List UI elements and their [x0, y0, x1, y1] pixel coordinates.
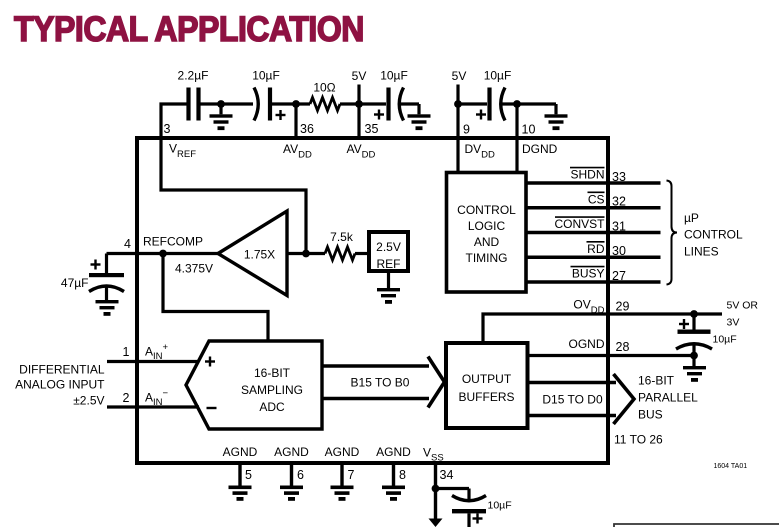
wire C4 to pin10 node [501, 102, 557, 105]
svg-text:B15 TO B0: B15 TO B0 [351, 376, 410, 390]
capacitor C2 10uF (polarized) [252, 69, 285, 121]
ground below 2.2uF node [210, 104, 233, 130]
wire C2 to pin36 node [272, 102, 310, 105]
junction node VSS [432, 485, 440, 493]
svg-text:29: 29 [616, 300, 630, 314]
svg-text:OGND: OGND [569, 337, 605, 351]
ground pin 7 [331, 486, 354, 501]
svg-text:BUFFERS: BUFFERS [458, 390, 514, 404]
svg-text:1604 TA01: 1604 TA01 [714, 463, 748, 470]
svg-text:4: 4 [124, 237, 131, 251]
svg-text:ADC: ADC [259, 400, 285, 414]
svg-text:D15 TO D0: D15 TO D0 [542, 393, 603, 407]
svg-text:LINES: LINES [684, 244, 719, 258]
IC outline U1 (LTC1604) [137, 138, 608, 463]
svg-text:27: 27 [612, 269, 626, 283]
ground pin 6 [280, 486, 303, 501]
wire C3 to ground [399, 102, 419, 105]
svg-text:AGND: AGND [376, 445, 411, 459]
ground below C6 [683, 356, 706, 382]
bus label 16-BIT PARALLEL BUS [638, 374, 698, 422]
svg-text:AVDD: AVDD [283, 142, 312, 161]
svg-text:CONTROL: CONTROL [684, 228, 743, 242]
svg-text:DVDD: DVDD [465, 142, 496, 161]
brace for uP control lines [667, 181, 678, 285]
internal VREF wire to buffer input [161, 138, 306, 254]
svg-text:5V OR: 5V OR [727, 300, 759, 312]
capacitor C5 47uF (polarized) [61, 254, 124, 301]
junction node pin36 [292, 100, 300, 108]
svg-text:REF: REF [377, 257, 401, 271]
ground after C3 [408, 104, 431, 130]
ground at pin10 net [545, 104, 568, 130]
wire pin3 VREF up and to 2.2uF [161, 104, 187, 140]
ground below 47uF [96, 300, 119, 316]
svg-text:ANALOG INPUT: ANALOG INPUT [15, 377, 105, 391]
svg-text:±2.5V: ±2.5V [73, 394, 104, 408]
svg-text:31: 31 [612, 219, 626, 233]
svg-text:CONTROL: CONTROL [457, 203, 516, 217]
capacitor C7 10uF (polarized) [452, 489, 512, 527]
bus B15 TO B0 [322, 357, 445, 408]
ground below 2.5V REF [377, 273, 400, 304]
wire SHDN pin 33 [526, 181, 661, 184]
svg-text:8: 8 [399, 468, 406, 482]
junction node OVDD supply [690, 310, 698, 318]
svg-text:16-BIT: 16-BIT [254, 366, 291, 380]
wire VSS node to C7 [436, 487, 470, 490]
svg-text:SAMPLING: SAMPLING [241, 383, 303, 397]
wire pin 36 [294, 104, 297, 140]
svg-text:CS: CS [588, 192, 605, 206]
svg-text:11 TO 26: 11 TO 26 [614, 433, 663, 447]
svg-text:10µF: 10µF [713, 334, 737, 346]
svg-text:7.5k: 7.5k [330, 230, 354, 244]
svg-text:9: 9 [463, 123, 470, 137]
svg-text:VREF: VREF [169, 142, 196, 161]
wire RD pin 30 [526, 256, 661, 259]
wire pin9 node to C4 [458, 102, 487, 105]
wire AGND pin 7 [340, 461, 343, 486]
wire AGND pin 8 [392, 461, 395, 486]
svg-text:34: 34 [440, 468, 454, 482]
wire buffer input to 7.5k [287, 252, 325, 255]
junction node pin10 [513, 100, 521, 108]
svg-text:10µF: 10µF [380, 69, 408, 83]
ground pin 8 [382, 486, 405, 501]
svg-text:10µF: 10µF [484, 69, 512, 83]
svg-text:AGND: AGND [274, 445, 309, 459]
svg-text:AVDD: AVDD [347, 142, 376, 161]
svg-text:30: 30 [612, 244, 626, 258]
svg-text:2.5V: 2.5V [376, 240, 401, 254]
svg-text:SHDN: SHDN [570, 168, 604, 182]
svg-text:AND: AND [474, 235, 500, 249]
junction node OGND [690, 352, 698, 360]
bus D15 TO D0 [527, 374, 634, 424]
svg-text:7: 7 [348, 468, 355, 482]
wire pin 9 down to control logic [456, 104, 459, 172]
svg-text:3: 3 [164, 122, 171, 136]
wire AGND pin 5 [238, 461, 241, 486]
op-amp buffer 1.75X [218, 211, 287, 296]
wire 2.2uF to 10uF C2 [201, 102, 254, 105]
junction node buffer input [302, 250, 310, 258]
junction node REFCOMP [159, 250, 167, 258]
svg-text:32: 32 [612, 195, 626, 209]
svg-text:5V: 5V [352, 69, 367, 83]
capacitor C4 10uF (polarized) [476, 69, 511, 121]
wire pin4 REFCOMP [107, 252, 219, 255]
junction node pin9 [454, 100, 462, 108]
wire REFCOMP node down to ADC [163, 254, 268, 342]
junction node top-gnd [217, 100, 225, 108]
capacitor C6 10uF (polarized) [676, 314, 737, 356]
svg-text:36: 36 [300, 122, 314, 136]
corner of next-section box [614, 524, 779, 527]
svg-text:4.375V: 4.375V [175, 262, 213, 276]
svg-text:AIN−: AIN− [145, 388, 169, 408]
svg-text:AGND: AGND [325, 445, 360, 459]
capacitor C3 10uF (polarized) [374, 69, 408, 121]
svg-text:2: 2 [123, 391, 130, 405]
svg-text:5V: 5V [452, 69, 467, 83]
svg-text:TYPICAL APPLICATION: TYPICAL APPLICATION [14, 11, 364, 50]
svg-text:1.75X: 1.75X [244, 248, 275, 262]
wire AGND pin 6 [290, 461, 293, 486]
svg-text:47µF: 47µF [61, 276, 89, 290]
svg-text:33: 33 [612, 170, 626, 184]
wire pin 10 down to control logic [515, 104, 518, 172]
svg-text:10: 10 [522, 123, 536, 137]
svg-text:1: 1 [123, 345, 130, 359]
junction node pin35 [355, 100, 363, 108]
svg-text:5: 5 [245, 468, 252, 482]
node 5V supply stub at pin 9 [452, 69, 467, 104]
svg-text:AGND: AGND [223, 445, 258, 459]
svg-text:6: 6 [297, 468, 304, 482]
output buffers block [446, 343, 528, 428]
wire 7.5k to 2.5V REF [355, 252, 369, 255]
svg-text:2.2µF: 2.2µF [178, 69, 209, 83]
svg-text:28: 28 [616, 340, 630, 354]
voltage reference U2 2.5V REF [369, 232, 408, 271]
input label DIFFERENTIAL ANALOG INPUT +/-2.5V [15, 363, 105, 408]
svg-text:µP: µP [684, 211, 699, 225]
wire CONVST pin 31 [526, 231, 661, 234]
wire AIN- pin 2 [107, 405, 199, 408]
wire VSS pin 34 down [434, 461, 437, 520]
svg-text:10µF: 10µF [252, 69, 280, 83]
svg-text:VSS: VSS [423, 446, 444, 464]
label uP CONTROL LINES [684, 211, 743, 258]
wire AIN+ pin 1 [107, 360, 199, 363]
svg-text:CONVST: CONVST [554, 217, 605, 231]
ADC block 16-BIT SAMPLING ADC [186, 341, 322, 429]
svg-text:3V: 3V [727, 317, 740, 329]
resistor R2 7.5k [325, 230, 355, 260]
svg-text:DGND: DGND [522, 142, 558, 156]
wire BUSY pin 27 [526, 280, 661, 283]
arrow to -5V supply [429, 519, 443, 527]
svg-text:10µF: 10µF [488, 500, 512, 512]
wire pin 35 [357, 104, 360, 140]
capacitor C1 2.2uF [178, 69, 209, 121]
wire OGND pin 28 [527, 354, 694, 357]
ground pin 5 [229, 486, 252, 501]
resistor R1 10 ohm [310, 81, 340, 111]
svg-text:OUTPUT: OUTPUT [462, 372, 512, 386]
wire resistor to pin35 node [340, 102, 386, 105]
wire CS pin 32 [526, 206, 661, 209]
svg-text:LOGIC: LOGIC [468, 219, 506, 233]
svg-text:RD: RD [587, 242, 605, 256]
wire OVDD pin 29 [483, 314, 722, 343]
svg-text:BUS: BUS [638, 408, 663, 422]
svg-text:TIMING: TIMING [466, 251, 508, 265]
control logic block [447, 173, 527, 293]
svg-text:REFCOMP: REFCOMP [143, 235, 203, 249]
svg-text:DIFFERENTIAL: DIFFERENTIAL [19, 363, 105, 377]
svg-text:35: 35 [365, 122, 379, 136]
svg-text:16-BIT: 16-BIT [638, 374, 675, 388]
title TYPICAL APPLICATION [14, 11, 364, 50]
node 5V supply stub at pin 35 [352, 69, 367, 104]
svg-text:PARALLEL: PARALLEL [638, 391, 698, 405]
svg-text:AIN+: AIN+ [145, 342, 169, 362]
svg-text:10Ω: 10Ω [313, 81, 335, 95]
svg-text:BUSY: BUSY [572, 267, 605, 281]
